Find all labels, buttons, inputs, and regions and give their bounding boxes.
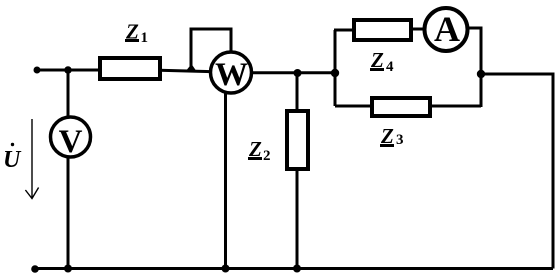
- wire bottom rail: [35, 267, 553, 270]
- wire parallel-section left vertical: [334, 30, 337, 106]
- wire output to right edge and down: [481, 74, 553, 269]
- wire ammeter to right vertical down to Z3 level: [446, 28, 481, 107]
- ammeter A: [425, 8, 468, 51]
- node Z2 top junction: [294, 69, 302, 77]
- node wattmeter bottom junction: [222, 265, 230, 273]
- node Z2 bottom junction: [293, 265, 301, 273]
- impedance Z3 box: [372, 98, 430, 116]
- impedance Z2 box: [287, 111, 308, 169]
- label Z2: [248, 137, 271, 164]
- node parallel-right junction: [477, 70, 485, 78]
- node wattmeter tap: [185, 64, 197, 72]
- wire Z4 to ammeter: [412, 28, 446, 31]
- node parallel-left junction: [331, 69, 339, 77]
- svg-text:2: 2: [263, 148, 271, 164]
- wire Z3 branch horizontal: [335, 105, 481, 108]
- svg-text:V: V: [59, 124, 83, 160]
- svg-text:U: U: [3, 147, 22, 173]
- arrow voltage direction: [25, 119, 38, 199]
- wire Z2 branch vertical: [296, 72, 299, 269]
- svg-text:W: W: [215, 57, 248, 93]
- wire voltmeter branch vertical: [67, 70, 70, 269]
- node voltmeter bottom junction: [64, 265, 72, 273]
- terminal dot top-left: [34, 67, 41, 74]
- label Z3: [380, 124, 404, 148]
- wire wattmeter voltage branch to bottom rail: [224, 74, 227, 269]
- wire Z4 branch left stub: [334, 29, 353, 32]
- voltmeter V: [51, 117, 91, 160]
- wire top rail: [37, 70, 335, 73]
- svg-text:A: A: [434, 9, 460, 49]
- label U phasor voltage: [3, 143, 22, 173]
- svg-text:1: 1: [141, 30, 149, 46]
- wire wattmeter current-coil loop: [191, 29, 231, 71]
- svg-text:4: 4: [386, 59, 394, 75]
- impedance Z1 box: [100, 58, 160, 79]
- svg-text:3: 3: [396, 132, 404, 148]
- terminal dot bottom-left: [31, 265, 39, 273]
- impedance Z4 box: [354, 20, 411, 40]
- wattmeter W: [211, 52, 252, 93]
- label Z1: [125, 20, 148, 47]
- label Z4: [370, 48, 394, 75]
- node junction voltmeter top: [64, 66, 72, 74]
